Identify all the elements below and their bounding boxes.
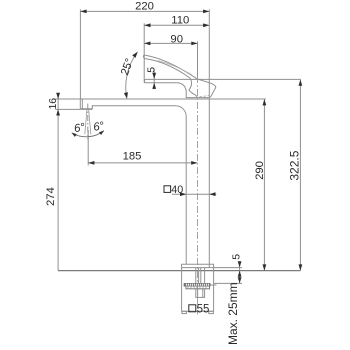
extension line right of 220/110 dims and faucet column right edge bbox=[208, 9, 210, 267]
svg-text:322.5: 322.5 bbox=[287, 150, 301, 180]
spout underside and column left edge bbox=[92, 106, 186, 265]
handle lever bottom edge with S-curve into body bbox=[146, 59, 197, 98]
base body bottom bbox=[182, 310, 214, 312]
arrowhead 290 top bbox=[263, 99, 267, 105]
extension line left of 110/90 dims bbox=[143, 23, 145, 82]
arrowhead 110 left bbox=[144, 23, 150, 27]
aerator bottom face bbox=[80, 106, 92, 109]
arrowhead spray arc right bbox=[99, 131, 104, 135]
faucet base assembly bbox=[182, 264, 217, 313]
svg-text:274: 274 bbox=[45, 187, 57, 206]
label square 40 bbox=[164, 186, 171, 193]
threaded stud left wall upper bbox=[195, 268, 197, 284]
svg-text:220: 220 bbox=[135, 1, 154, 13]
spray axis centerline dash-dot bbox=[87, 104, 89, 140]
spout tip hidden outlet dashed line bbox=[195, 95, 210, 97]
handle lever tip cap bbox=[143, 55, 145, 59]
svg-text:55: 55 bbox=[197, 303, 210, 315]
handle angle arc 25 deg bbox=[126, 52, 138, 99]
arrowhead 185 left bbox=[88, 161, 94, 165]
svg-text:40: 40 bbox=[171, 184, 183, 196]
dimension line 110 bbox=[144, 24, 209, 26]
body front face top bbox=[144, 79, 146, 82]
base foot left bbox=[182, 311, 187, 313]
extension line left of 220 dim bbox=[79, 9, 81, 99]
arrowhead 5 step top bbox=[152, 73, 156, 79]
spray angle arc bbox=[72, 131, 104, 137]
threaded stud lower inner line right bbox=[202, 289, 204, 298]
base body left wall bbox=[181, 268, 183, 312]
extension line max deck thickness bbox=[214, 282, 242, 284]
extension line base plate bottom bbox=[182, 267, 242, 269]
svg-text:290: 290 bbox=[254, 161, 266, 180]
spray cone right ray bbox=[89, 110, 91, 134]
dimension line square 40 bbox=[172, 193, 216, 195]
handle lever top edge bbox=[144, 55, 197, 79]
arrowhead 185 right bbox=[191, 161, 197, 165]
washer serration ticks bbox=[187, 284, 209, 286]
dimension line 322.5 bbox=[299, 80, 301, 271]
hose line inner right bbox=[200, 268, 202, 284]
counter top line bbox=[58, 270, 300, 272]
arrowhead 40 left bbox=[180, 192, 186, 196]
extension line body top level to 322.5 dim bbox=[145, 78, 301, 80]
handle lever inner highlight line bbox=[158, 61, 192, 75]
arrowhead 40 right bbox=[209, 192, 215, 196]
mounting nut outline bbox=[186, 286, 210, 289]
arrowhead 322.5 bottom bbox=[299, 264, 303, 270]
arrowhead 25 deg arc top bbox=[132, 52, 137, 58]
threaded stud right wall upper bbox=[204, 268, 206, 284]
nut hatch ticks bbox=[188, 286, 206, 289]
arrowhead max 25 bottom bbox=[238, 277, 242, 283]
dimension line 185 bbox=[88, 162, 197, 164]
extension line spout outlet level to 290 dim bbox=[55, 98, 266, 100]
extension line spray axis to 185 dim bbox=[87, 130, 89, 165]
svg-text:5: 5 bbox=[230, 254, 242, 260]
head bottom edge bbox=[186, 97, 209, 99]
washer edge tail bbox=[210, 284, 216, 286]
svg-text:5: 5 bbox=[146, 67, 158, 73]
arrowhead 110 right bbox=[203, 23, 209, 27]
arrowhead 16 top bbox=[56, 93, 60, 99]
svg-text:110: 110 bbox=[171, 15, 189, 27]
arrowhead 90 left bbox=[144, 42, 150, 46]
column centerline dash-dot bbox=[197, 76, 199, 315]
aerator left face inner bbox=[81, 99, 83, 109]
arrowhead 220 right bbox=[203, 10, 209, 14]
dimension line 290 bbox=[263, 99, 265, 270]
threaded stud lower bbox=[196, 289, 205, 298]
dimension line 16 and 274 bbox=[57, 93, 59, 270]
body step ledge and rounded shoulder bbox=[144, 83, 186, 98]
svg-text:90: 90 bbox=[170, 33, 183, 45]
hose line inner left bbox=[198, 268, 200, 284]
spray cone left ray bbox=[85, 110, 87, 134]
arrowhead 5 base bottom max 25 top bbox=[238, 271, 242, 277]
base foot right bbox=[209, 311, 214, 313]
label square 55 bbox=[189, 305, 196, 312]
arrowhead 90 right bbox=[191, 42, 197, 46]
dimension texts bbox=[45, 1, 301, 345]
mounting washer outline bbox=[184, 284, 210, 286]
arrowhead 220 left bbox=[80, 10, 86, 14]
arrowhead 5 base top bbox=[238, 261, 242, 267]
svg-text:Max. 25mm: Max. 25mm bbox=[226, 282, 240, 345]
arrowhead 290 bottom bbox=[263, 264, 267, 270]
threaded stud lower inner line left bbox=[197, 289, 199, 298]
svg-text:16: 16 bbox=[47, 98, 59, 110]
arrowhead 322.5 top bbox=[299, 80, 303, 86]
dimension line 5 spout step bbox=[153, 69, 155, 90]
extension line aerator bottom level bbox=[55, 108, 92, 110]
svg-text:185: 185 bbox=[123, 150, 142, 162]
spout tip outline bbox=[197, 79, 216, 98]
dimension line 5 base plate and max 25 bbox=[239, 261, 241, 283]
base body right wall bbox=[213, 268, 215, 312]
dimension line 220 bbox=[80, 10, 209, 12]
arrowhead spray arc left bbox=[72, 133, 77, 137]
base cover plate bbox=[182, 264, 214, 267]
extension line right of 90 dim bbox=[197, 41, 199, 79]
arrowhead 16 bottom 274 top bbox=[56, 109, 60, 115]
aerator left face outer bbox=[79, 99, 81, 109]
dimension line 90 bbox=[144, 42, 197, 44]
arrowhead 25 deg arc bottom bbox=[124, 92, 128, 98]
arrowhead 5 step bottom bbox=[152, 83, 156, 89]
